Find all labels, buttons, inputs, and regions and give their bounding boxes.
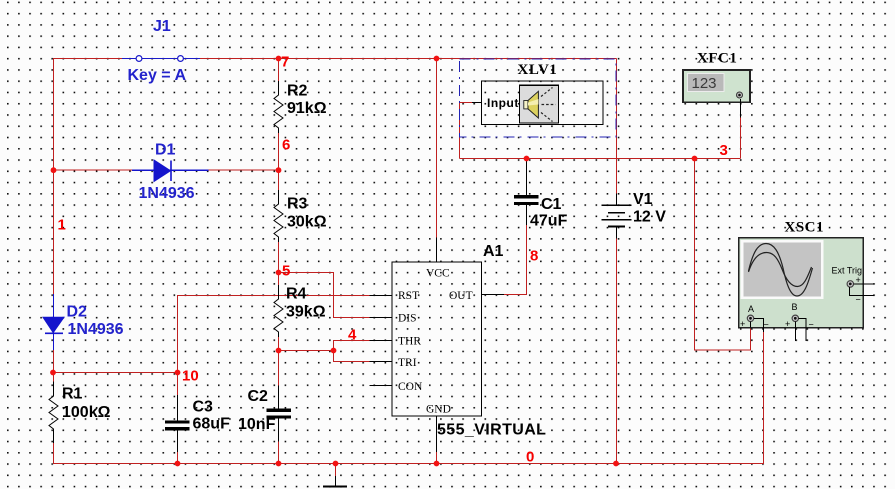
svg-text:Input: Input [487,96,519,110]
svg-text:4: 4 [348,327,357,344]
wire OUT to C1 [504,225,527,295]
svg-text:A1: A1 [483,243,504,260]
XSC1 oscilloscope [739,238,864,330]
svg-text:A: A [748,304,754,314]
speaker icon [520,85,559,123]
svg-text:6: 6 [282,137,290,154]
wire bottom rail [53,463,764,465]
wire node10 row [53,372,178,374]
junction rail C3 [175,461,181,467]
wire left rail upper [53,59,55,295]
wire XLV1 input stub [460,102,473,104]
svg-text:5: 5 [282,263,290,280]
wire VCC rail [436,59,438,238]
svg-text:D1: D1 [155,142,176,159]
capacitor C3 [165,395,190,452]
svg-text:Key = A: Key = A [128,67,187,84]
junction node 7 [276,56,282,62]
wire R3 to R4 [278,242,280,285]
svg-text:1N4936: 1N4936 [139,185,195,202]
junction VCC rail [434,56,440,62]
svg-text:CON: CON [398,381,423,393]
wire V1 bottom [615,239,617,464]
svg-text:V1: V1 [633,191,653,208]
svg-text:VCC: VCC [426,268,450,280]
wire ground stub [335,464,337,477]
resistor R2 [274,81,283,133]
wire node3 to scope A plus [695,159,751,351]
svg-text:68uF: 68uF [193,416,231,433]
svg-text:Ext Trig: Ext Trig [832,266,863,276]
svg-text:12 V: 12 V [633,209,666,226]
battery V1 [601,194,631,239]
svg-text:C3: C3 [193,399,214,416]
wire node3 row [460,158,741,160]
wire scope B plus stub [794,322,796,342]
resistor R4 [274,285,283,337]
svg-text:−: − [809,320,814,330]
XLV1 dashed selection box [460,59,617,137]
svg-text:39kΩ: 39kΩ [286,304,326,321]
svg-text:R3: R3 [287,196,308,213]
XFC1 frequency counter [683,70,750,102]
junction node 3 [692,156,698,162]
svg-text:8: 8 [530,248,538,265]
svg-text:−: − [764,320,769,330]
svg-text:7: 7 [281,54,289,71]
svg-text:THR: THR [398,336,421,348]
resistor R3 [274,190,283,242]
diode D2 [43,294,64,350]
wire node10 to C3 [177,373,179,396]
op-amp U1 555 timer box [370,238,505,453]
svg-text:XLV1: XLV1 [518,62,558,78]
wire D1 row right [209,169,279,171]
svg-text:10nF: 10nF [238,416,276,433]
wire GND to rail [436,452,438,464]
svg-text:C1: C1 [541,196,562,213]
svg-text:DIS: DIS [398,313,417,325]
svg-text:R4: R4 [286,286,307,303]
svg-text:30kΩ: 30kΩ [287,214,327,231]
wire node7 to R2 [278,59,280,82]
wire input lead [472,102,482,104]
resistor R1 [49,382,58,444]
svg-text:1: 1 [58,217,66,234]
svg-text:C2: C2 [248,388,269,405]
svg-text:D2: D2 [67,304,88,321]
wire C3 to rail [177,452,179,464]
ground [323,476,347,487]
wire to XFC1 [740,118,742,159]
wire XLV1 input drop [459,103,461,159]
svg-text:47uF: 47uF [530,213,568,230]
capacitor C2 [267,385,292,441]
svg-text:0: 0 [526,449,534,466]
junction node 5 [276,270,282,276]
wire scope A plus inner [750,322,752,328]
XLV1 inner box [482,81,604,125]
svg-text:+: + [785,319,790,329]
junction rail ground [333,461,339,467]
svg-text:123: 123 [692,75,717,92]
wire top rail left segment [53,58,122,60]
svg-text:J1: J1 [153,18,171,35]
wire scope A minus hook [754,319,764,333]
wire scope A minus to rail [763,332,765,464]
wire R2 to R3 [278,133,280,190]
svg-text:3: 3 [720,142,728,159]
wire R1 to rail [53,443,55,464]
junction rail GND pin [434,461,440,467]
wire scope B minus hook [799,319,806,342]
wire left rail below D2 [53,350,55,382]
svg-text:GND: GND [426,404,451,416]
svg-text:XSC1: XSC1 [785,220,825,236]
svg-text:100kΩ: 100kΩ [62,404,111,421]
wire R4 to C2 [278,337,280,385]
svg-text:B: B [792,302,798,312]
wire node4 stub [279,350,334,352]
svg-text:XFC1: XFC1 [697,51,737,67]
svg-text:R2: R2 [287,83,308,100]
svg-text:OUT: OUT [449,290,473,302]
junction rail C2 [276,461,282,467]
wire top rail right segment [200,58,616,60]
junction node 4 [331,348,337,354]
junction node 10 [175,370,181,376]
svg-text:10: 10 [182,368,199,385]
svg-text:R1: R1 [62,386,83,403]
svg-text:+: + [740,319,745,329]
wire to THR [334,341,370,351]
wire to TRI [334,351,370,362]
wire node10 to RST [178,296,370,373]
svg-text:555_VIRTUAL: 555_VIRTUAL [437,422,546,439]
wire ext trig minus stub [850,287,875,296]
wire node5 to DIS [279,273,370,318]
junction C1 top [524,156,530,162]
diode D1 [132,160,209,182]
svg-text:TRI: TRI [398,357,417,369]
wire V1 top [615,59,617,194]
svg-text:RST: RST [398,290,419,302]
wire ext trig plus stub [854,283,875,285]
wire D1 row left [53,169,132,171]
junction node 6 [276,167,282,173]
wire C2 to rail [278,442,280,464]
junction rail V1 [613,461,619,467]
svg-text:91kΩ: 91kΩ [287,100,327,117]
wire XFC1 pin stub [740,99,742,118]
capacitor C1 [514,159,539,226]
junction D1 left [51,167,57,173]
junction node 10 left [50,370,56,376]
junction R4 bottom [276,348,282,354]
svg-text:1N4936: 1N4936 [68,321,124,338]
switch J1 [122,56,200,62]
